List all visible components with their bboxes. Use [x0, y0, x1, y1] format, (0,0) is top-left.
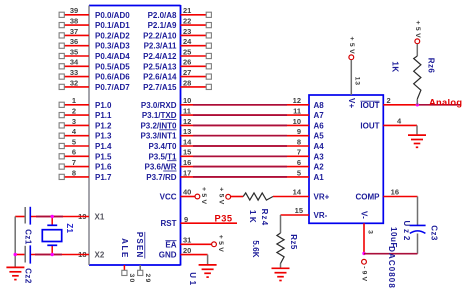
svg-text:P0.0/AD0: P0.0/AD0	[95, 11, 130, 20]
svg-text:3: 3	[366, 230, 373, 234]
svg-text:P2.0/A8: P2.0/A8	[148, 11, 177, 20]
svg-text:P2.1/A9: P2.1/A9	[148, 21, 177, 30]
svg-text:37: 37	[70, 27, 78, 36]
svg-text:7: 7	[297, 148, 301, 157]
svg-text:36: 36	[70, 37, 78, 46]
svg-text:P1.3: P1.3	[95, 132, 112, 141]
svg-text:8: 8	[297, 137, 301, 146]
svg-text:VCC: VCC	[160, 193, 177, 202]
svg-text:Analog: Analog	[429, 98, 462, 108]
svg-text:P3.7/RD: P3.7/RD	[146, 173, 176, 182]
svg-text:P1.4: P1.4	[95, 142, 112, 151]
svg-text:16: 16	[183, 158, 191, 167]
svg-text:34: 34	[70, 58, 79, 67]
svg-text:15: 15	[295, 206, 303, 215]
svg-text:IOUT: IOUT	[360, 121, 379, 130]
svg-text:Rz6: Rz6	[426, 58, 435, 74]
svg-text:7: 7	[72, 158, 76, 167]
svg-text:P3.6/WR: P3.6/WR	[144, 163, 176, 172]
svg-text:2: 2	[387, 96, 391, 105]
svg-text:P3.1/TXD: P3.1/TXD	[142, 111, 177, 120]
svg-text:P1.1: P1.1	[95, 111, 112, 120]
svg-text:10: 10	[293, 117, 301, 126]
svg-text:+5V: +5V	[217, 187, 224, 206]
svg-text:40: 40	[183, 188, 191, 197]
svg-text:P1.5: P1.5	[95, 152, 112, 161]
svg-text:VR+: VR+	[314, 193, 330, 202]
svg-text:11: 11	[183, 107, 191, 116]
svg-text:20: 20	[183, 246, 191, 255]
svg-text:Cz2: Cz2	[23, 268, 32, 284]
svg-text:V-: V-	[360, 211, 369, 219]
svg-text:25: 25	[183, 47, 191, 56]
svg-text:8: 8	[72, 168, 76, 177]
svg-text:P3.4/T0: P3.4/T0	[148, 142, 177, 151]
svg-text:PSEN: PSEN	[136, 232, 145, 259]
svg-text:A5: A5	[314, 132, 325, 141]
svg-text:1K: 1K	[248, 210, 257, 225]
svg-text:P0.7/AD7: P0.7/AD7	[95, 83, 130, 92]
svg-text:P2.6/A14: P2.6/A14	[143, 73, 177, 82]
svg-text:IOUT: IOUT	[360, 101, 379, 110]
svg-text:EA: EA	[165, 240, 176, 249]
svg-text:38: 38	[70, 17, 78, 26]
svg-text:A3: A3	[314, 152, 325, 161]
svg-text:31: 31	[183, 236, 191, 245]
svg-text:P0.4/AD4: P0.4/AD4	[95, 52, 130, 61]
svg-text:P2.5/A13: P2.5/A13	[143, 62, 177, 71]
svg-text:Uz2: Uz2	[402, 220, 411, 243]
svg-text:P1.7: P1.7	[95, 173, 112, 182]
svg-text:U1: U1	[188, 272, 197, 287]
svg-text:P1.2: P1.2	[95, 121, 112, 130]
svg-text:10uF: 10uF	[389, 227, 398, 248]
svg-text:P0.2/AD2: P0.2/AD2	[95, 31, 130, 40]
svg-text:23: 23	[183, 27, 191, 36]
svg-text:Rz5: Rz5	[289, 234, 298, 250]
svg-text:A4: A4	[314, 142, 325, 151]
svg-text:6: 6	[72, 148, 76, 157]
svg-text:14: 14	[183, 137, 192, 146]
svg-text:P2.2/A10: P2.2/A10	[143, 31, 177, 40]
svg-text:10: 10	[183, 96, 191, 105]
svg-text:+5V: +5V	[414, 21, 421, 40]
svg-text:RST: RST	[161, 219, 177, 228]
svg-text:P2.3/A11: P2.3/A11	[144, 42, 177, 51]
svg-text:1: 1	[72, 96, 76, 105]
svg-text:12: 12	[183, 117, 191, 126]
svg-text:22: 22	[183, 17, 191, 26]
svg-text:DAC0808: DAC0808	[387, 246, 396, 289]
svg-text:GND: GND	[159, 251, 177, 260]
svg-text:24: 24	[183, 37, 192, 46]
svg-text:P3.3/INT1: P3.3/INT1	[140, 132, 177, 141]
svg-text:30: 30	[128, 274, 135, 284]
svg-text:P3.0/RXD: P3.0/RXD	[141, 101, 177, 110]
svg-text:28: 28	[183, 78, 191, 87]
svg-text:A1: A1	[314, 173, 325, 182]
svg-text:9: 9	[297, 127, 301, 136]
svg-text:35: 35	[70, 47, 78, 56]
svg-text:P3.5/T1: P3.5/T1	[148, 152, 177, 161]
svg-text:2: 2	[72, 107, 76, 116]
svg-text:-9V: -9V	[361, 266, 368, 283]
svg-text:P0.3/AD3: P0.3/AD3	[95, 42, 130, 51]
svg-text:21: 21	[183, 6, 191, 15]
svg-text:P2.7/A15: P2.7/A15	[143, 83, 177, 92]
svg-text:A2: A2	[314, 163, 325, 172]
svg-text:+5V: +5V	[217, 235, 224, 254]
svg-text:A7: A7	[314, 111, 325, 120]
svg-text:5.6K: 5.6K	[251, 240, 260, 257]
svg-text:39: 39	[70, 6, 78, 15]
svg-text:+5V: +5V	[200, 187, 207, 206]
svg-text:29: 29	[144, 274, 151, 284]
svg-text:16: 16	[391, 188, 399, 197]
svg-text:X2: X2	[95, 251, 105, 260]
svg-text:P0.1/AD1: P0.1/AD1	[95, 21, 130, 30]
svg-text:6: 6	[297, 158, 301, 167]
svg-text:VR-: VR-	[314, 211, 328, 220]
svg-text:A6: A6	[314, 121, 325, 130]
svg-text:13: 13	[183, 127, 191, 136]
svg-text:P35: P35	[215, 213, 233, 223]
svg-text:Cz1: Cz1	[23, 229, 32, 245]
svg-text:32: 32	[70, 78, 78, 87]
svg-text:Z1: Z1	[65, 223, 74, 233]
svg-text:X1: X1	[95, 213, 105, 222]
svg-text:COMP: COMP	[356, 193, 381, 202]
svg-text:11: 11	[293, 107, 301, 116]
svg-text:5: 5	[72, 137, 76, 146]
svg-text:Cz3: Cz3	[429, 225, 438, 241]
svg-text:P3.2/INT0: P3.2/INT0	[140, 121, 177, 130]
svg-text:26: 26	[183, 58, 191, 67]
svg-text:3: 3	[72, 117, 76, 126]
svg-text:13: 13	[353, 77, 360, 86]
svg-text:27: 27	[183, 68, 191, 77]
svg-text:ALE: ALE	[120, 238, 129, 259]
svg-text:33: 33	[70, 68, 78, 77]
svg-text:P0.6/AD6: P0.6/AD6	[95, 73, 130, 82]
svg-text:17: 17	[183, 168, 191, 177]
svg-text:P0.5/AD5: P0.5/AD5	[95, 62, 130, 71]
svg-text:P1.6: P1.6	[95, 163, 112, 172]
svg-text:Rz4: Rz4	[260, 209, 269, 227]
svg-text:15: 15	[183, 148, 191, 157]
svg-text:P2.4/A12: P2.4/A12	[143, 52, 177, 61]
svg-text:12: 12	[293, 96, 301, 105]
svg-text:P1.0: P1.0	[95, 101, 112, 110]
svg-text:14: 14	[293, 188, 302, 197]
svg-text:1K: 1K	[390, 61, 399, 72]
svg-text:5: 5	[297, 168, 301, 177]
svg-text:+5V: +5V	[348, 37, 355, 56]
svg-text:V+: V+	[347, 98, 356, 109]
svg-text:A8: A8	[314, 101, 325, 110]
